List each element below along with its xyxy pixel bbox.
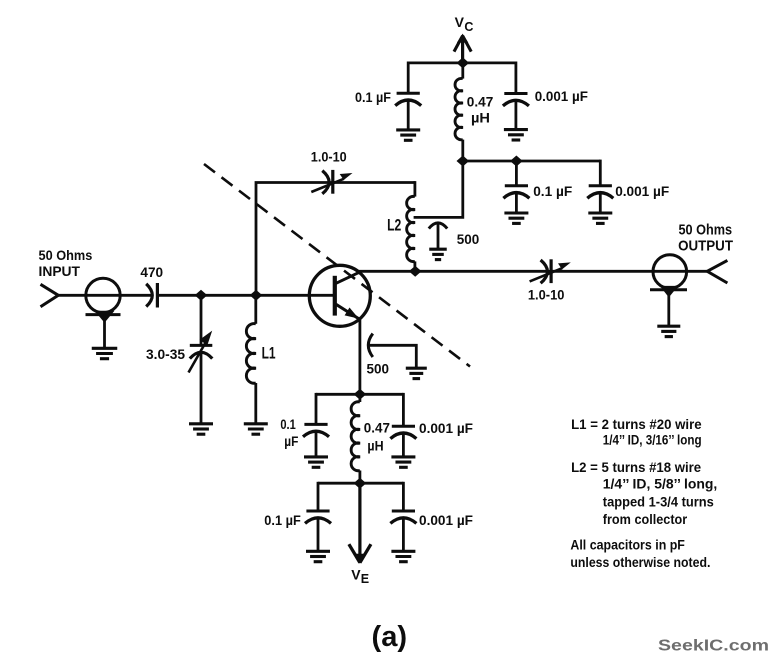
junction node A (195, 290, 208, 301)
svg-text:50 Ohms: 50 Ohms (679, 221, 733, 238)
trimmer capacitor C9 1.0-10 (541, 260, 548, 283)
wire collector line (359, 270, 708, 273)
ground under J1 (92, 347, 118, 350)
wire input to C6 (56, 294, 152, 297)
wire VC rail (408, 62, 516, 65)
svg-text:50 Ohms: 50 Ohms (39, 247, 93, 263)
junction VC rail / L3 (457, 57, 470, 68)
svg-text:All capacitors in pF: All capacitors in pF (570, 537, 685, 553)
wire emitter rail (316, 393, 403, 396)
ground under C14 (391, 550, 415, 553)
svg-text:E: E (361, 572, 369, 586)
svg-text:0.001 µF: 0.001 µF (419, 512, 473, 528)
output arrow (707, 260, 727, 283)
trimmer capacitor C7 3.0-35 (190, 344, 213, 347)
capacitor C1 0.1 uF (397, 92, 420, 95)
svg-text:1.0-10: 1.0-10 (528, 287, 565, 303)
wire rail to C13 (317, 482, 320, 511)
svg-text:µH: µH (367, 437, 383, 453)
capacitor C14 0.001 uF (392, 510, 415, 513)
ground under C1 (396, 128, 420, 131)
capacitor C3 0.1 uF (505, 184, 528, 187)
ground under L1 (244, 422, 268, 425)
ground under C4 (588, 211, 612, 214)
svg-text:OUTPUT: OUTPUT (678, 238, 733, 255)
capacitor C13 0.1 uF (306, 510, 329, 513)
svg-text:470: 470 (140, 264, 163, 280)
svg-text:0.001 µF: 0.001 µF (419, 420, 473, 436)
connector J2 output jack (653, 255, 687, 289)
capacitor C5 500 feedthrough (429, 223, 447, 229)
wire VC rail to C1 (407, 62, 410, 94)
capacitor C10 500 feedthrough (368, 334, 373, 357)
wire rail to C11 (315, 393, 318, 425)
inductor L4 0.47 uH (358, 394, 361, 402)
svg-text:L2 = 5 turns #18 wire: L2 = 5 turns #18 wire (571, 459, 701, 475)
svg-text:0.47: 0.47 (467, 94, 494, 110)
transistor Q1 (309, 265, 370, 326)
svg-text:V: V (351, 567, 361, 583)
svg-text:unless otherwise noted.: unless otherwise noted. (570, 554, 710, 570)
wire emitter (358, 319, 361, 395)
connector J2 shield (650, 288, 687, 291)
junction node C (collector/L2) (409, 266, 422, 277)
svg-text:1/4’’ ID, 5/8’’ long,: 1/4’’ ID, 5/8’’ long, (603, 475, 718, 491)
svg-text:0.1 µF: 0.1 µF (533, 183, 572, 199)
junction rail2 / L3 (457, 156, 470, 167)
connector J1 input jack (86, 278, 120, 312)
svg-text:0.001 µF: 0.001 µF (615, 183, 669, 199)
ground under C7 (189, 422, 213, 425)
svg-text:L1: L1 (262, 344, 276, 363)
svg-text:L2: L2 (387, 215, 401, 234)
wire feedback loop (256, 183, 415, 296)
inductor L1 (254, 295, 257, 324)
ground under C12 (391, 455, 415, 458)
svg-text:0.1 µF: 0.1 µF (355, 89, 391, 105)
ground under C11 (304, 455, 328, 458)
svg-text:L1 = 2 turns #20 wire: L1 = 2 turns #20 wire (571, 416, 702, 432)
inductor L2 (413, 181, 416, 197)
ground under C5 (429, 248, 447, 251)
inductor L3 0.47 uH (461, 63, 464, 79)
svg-text:µH: µH (471, 110, 490, 126)
wire decoupling rail (463, 160, 601, 163)
svg-text:3.0-35: 3.0-35 (146, 346, 185, 362)
svg-text:500: 500 (457, 231, 480, 247)
capacitor C12 0.001 uF (392, 425, 415, 428)
input arrow (41, 284, 59, 307)
capacitor C4 0.001 uF (589, 184, 612, 187)
ground under C10 (406, 367, 427, 370)
junction node B (250, 290, 263, 301)
svg-text:INPUT: INPUT (39, 263, 81, 279)
wire C6 to base (157, 294, 333, 297)
svg-text:1.0-10: 1.0-10 (311, 149, 347, 165)
capacitor C6 470 (146, 284, 152, 307)
svg-text:V: V (455, 14, 465, 30)
capacitor C11 0.1 uF (304, 423, 327, 426)
svg-text:µF: µF (284, 433, 298, 449)
svg-text:C: C (464, 20, 473, 34)
svg-text:0.47: 0.47 (364, 420, 390, 436)
wire VC rail to C2 (515, 62, 518, 94)
connector J1 shield (86, 313, 121, 316)
ground under C13 (306, 550, 330, 553)
svg-text:0.001 µF: 0.001 µF (535, 88, 589, 104)
svg-text:tapped 1-3/4 turns: tapped 1-3/4 turns (603, 494, 714, 510)
trimmer capacitor C8 1.0-10 (322, 171, 329, 194)
wire rail2 to C4 (599, 160, 602, 186)
wire rail2 down to L2 tap (414, 161, 463, 217)
ground under C3 (504, 211, 528, 214)
wire rail to C12 (402, 393, 405, 426)
ground under J2 (657, 325, 680, 328)
junction node E (VE rail) (354, 478, 367, 489)
svg-text:0.1: 0.1 (280, 416, 296, 432)
shield partition (dashed) (204, 164, 470, 367)
svg-text:500: 500 (367, 360, 390, 376)
supply VC arrow (461, 38, 464, 64)
ground under C2 (504, 128, 528, 131)
junction rail2 / C3 (510, 156, 523, 167)
svg-text:SeekIC.com: SeekIC.com (658, 638, 769, 655)
junction node D (emitter rail) (354, 389, 367, 400)
svg-text:0.1 µF: 0.1 µF (264, 512, 301, 528)
wire lower emitter rail (318, 482, 403, 485)
svg-text:(a): (a) (372, 621, 408, 653)
wire node A to C7 (200, 295, 203, 344)
wire rail to C14 (402, 482, 405, 511)
capacitor C2 0.001 uF (504, 92, 527, 95)
supply VE arrow (358, 483, 361, 557)
svg-text:1/4’’ ID, 3/16’’ long: 1/4’’ ID, 3/16’’ long (603, 431, 702, 447)
svg-text:from collector: from collector (603, 511, 688, 527)
wire rail2 to C3 (515, 161, 518, 186)
